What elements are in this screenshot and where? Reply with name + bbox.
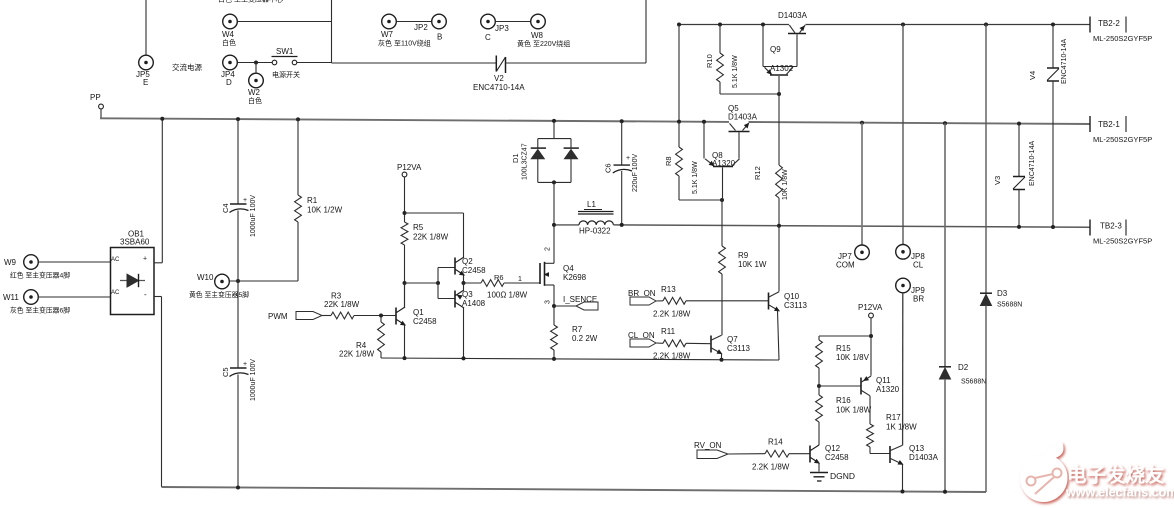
wire Q9 base to R12: [778, 76, 780, 165]
svg-text:PP: PP: [90, 93, 101, 102]
wire bridge plus up to rail: [154, 262, 162, 264]
rectifier D1 100L3CZ47: [553, 121, 555, 139]
svg-text:电子发烧友: 电子发烧友: [1067, 464, 1165, 487]
node JP8 top: [901, 23, 905, 27]
wire R5 to Q1 collector: [404, 245, 406, 308]
svg-text:10K 1/8V: 10K 1/8V: [836, 353, 870, 362]
transistor Q1 C2458: [395, 308, 397, 325]
svg-text:D: D: [226, 78, 232, 87]
wire TB2-3 rail: [614, 225, 1091, 227]
svg-text:C2458: C2458: [825, 453, 849, 462]
svg-text:3: 3: [545, 300, 552, 304]
wire JP7: [861, 123, 863, 245]
node Q9 emitter drop: [761, 23, 765, 27]
svg-text:AC: AC: [111, 290, 120, 296]
input tag CL_ON: [630, 339, 656, 347]
terminal TB2-2 ML-250S2GYF5P: [1089, 17, 1091, 33]
svg-text:5.1K 1/8W: 5.1K 1/8W: [692, 161, 699, 194]
input tag PWM: [296, 312, 322, 320]
resistor R10 5.1K 1/8W: [719, 25, 721, 54]
svg-text:1000uF 100V: 1000uF 100V: [250, 195, 257, 237]
wire Q2 emitter down: [463, 275, 465, 283]
node JP7 on rail: [860, 121, 864, 125]
node R5 top tap: [403, 211, 407, 215]
svg-text:+: +: [143, 256, 147, 263]
wire D1 to L1 node: [553, 182, 555, 225]
svg-text:ENC4710-14A: ENC4710-14A: [1061, 39, 1068, 84]
wire Q3 emitter up: [463, 283, 465, 290]
node L1 left: [552, 223, 556, 227]
svg-text:C6: C6: [604, 163, 613, 173]
svg-text:A1302: A1302: [770, 64, 794, 73]
svg-text:220uF 100V: 220uF 100V: [632, 154, 639, 192]
svg-text:100Ω 1/8W: 100Ω 1/8W: [487, 291, 528, 300]
resistor R14 2.2K 1/8W: [765, 450, 789, 457]
svg-text:2.2K 1/8W: 2.2K 1/8W: [653, 310, 691, 319]
svg-text:C: C: [485, 33, 491, 42]
svg-text:V3: V3: [993, 176, 1002, 185]
wire bottom rail: [162, 487, 987, 492]
svg-text:TB2-3: TB2-3: [1100, 222, 1122, 231]
svg-text:D1403A: D1403A: [778, 11, 808, 20]
resistor R9 10K 1W: [721, 200, 723, 246]
wire R11 to Q7 base: [686, 342, 711, 344]
svg-text:灰色 至110V绕组: 灰色 至110V绕组: [378, 39, 431, 48]
wire Q12 collector up: [818, 444, 820, 446]
wire R13 to Q10 base: [686, 300, 769, 302]
node R8 top: [677, 120, 681, 124]
svg-text:W11: W11: [3, 293, 19, 302]
node D1 bottom: [552, 180, 556, 184]
svg-text:1000uF 100V: 1000uF 100V: [250, 359, 257, 401]
node D1 top: [552, 119, 556, 123]
wire Q13 emitter to bottom rail: [902, 464, 904, 491]
resistor R4 22K 1/8W: [380, 316, 382, 323]
node R1 top: [296, 117, 300, 121]
svg-text:TB2-1: TB2-1: [1098, 120, 1120, 129]
wire Q10 emitter down to PGND corner: [778, 311, 780, 360]
svg-text:JP3: JP3: [495, 24, 509, 33]
connector JP9 BR: [896, 278, 911, 293]
svg-text:W10: W10: [197, 273, 214, 282]
wire PWM to R3: [322, 315, 331, 317]
svg-text:RV_ON: RV_ON: [694, 441, 722, 450]
svg-text:电源开关: 电源开关: [272, 70, 300, 79]
connector JP4: [223, 55, 238, 70]
capacitor C6 220uF 100V: [621, 121, 623, 164]
wire bridge minus down: [154, 296, 162, 298]
svg-text:www.elecfans.com: www.elecfans.com: [1065, 486, 1174, 500]
svg-text:2.2K 1/8W: 2.2K 1/8W: [752, 463, 790, 472]
svg-text:100L3CZ47: 100L3CZ47: [522, 143, 529, 180]
fuse V3 ENC4710-14A: [1017, 122, 1021, 126]
wire rail to mid rail: [678, 25, 680, 122]
svg-text:A1320: A1320: [876, 385, 900, 394]
resistor R3 22K 1/8W: [331, 312, 354, 319]
svg-text:K2698: K2698: [563, 273, 587, 282]
node Q3 collector on PGND: [462, 356, 466, 360]
wire W9 to bridge: [38, 261, 110, 263]
svg-text:+: +: [243, 197, 247, 204]
svg-text:R8: R8: [664, 156, 673, 166]
fuse V4 ENC4710-14A: [1051, 23, 1055, 27]
resistor R5 22K 1/8W: [401, 222, 408, 245]
svg-text:C3113: C3113: [784, 301, 808, 310]
svg-text:AC: AC: [111, 257, 120, 263]
svg-text:C5: C5: [221, 367, 230, 377]
svg-text:D1: D1: [511, 153, 520, 163]
mosfet Q4 K2698: [539, 263, 541, 284]
svg-text:+: +: [626, 155, 630, 162]
resistor R15 10K 1/8V: [816, 340, 823, 368]
resistor R13 2.2K 1/8W: [663, 297, 686, 304]
wire RV tag to R14: [728, 453, 765, 455]
wire JP5 stub up: [145, 0, 147, 55]
wire Q1 emitter down: [404, 325, 406, 358]
svg-text:C3113: C3113: [727, 344, 751, 353]
capacitor C4 1000uF 100V: [237, 119, 239, 203]
svg-text:R14: R14: [768, 438, 783, 447]
node C6 top: [620, 119, 624, 123]
wire W11 to bridge: [38, 296, 110, 298]
svg-text:PWM: PWM: [268, 312, 288, 321]
node W2 junction: [254, 61, 258, 65]
svg-text:黄色 至主变压器5脚: 黄色 至主变压器5脚: [189, 290, 249, 299]
svg-text:A1408: A1408: [462, 299, 486, 308]
svg-text:COM: COM: [836, 261, 855, 270]
svg-text:D3: D3: [997, 289, 1008, 298]
svg-text:交流电源: 交流电源: [172, 62, 202, 72]
wire Q8 base down: [722, 167, 724, 200]
node R12 on TB2-3 rail: [777, 224, 781, 228]
node Q8 base/R9: [720, 198, 724, 202]
wire PGND line: [381, 358, 779, 360]
wire Q1 collector up: [404, 283, 406, 308]
wire JP3: [495, 21, 530, 23]
transistor Q3 A1408: [454, 291, 456, 308]
output tag I_SENCE: [576, 302, 598, 310]
switch SW1: [272, 60, 277, 65]
resistor R8 5.1K 1/8W: [678, 122, 680, 147]
svg-text:W9: W9: [4, 258, 17, 267]
wire box bottom right: [506, 62, 647, 64]
resistor R11 2.2K 1/8W: [663, 340, 686, 347]
node D2 top: [943, 121, 947, 125]
transistor Q13 D1403A: [889, 446, 891, 463]
wire R3 to Q1 base: [354, 315, 396, 317]
node rail start: [677, 23, 681, 27]
wire JP2: [396, 21, 431, 23]
wire L1 left: [554, 224, 579, 226]
node Q1 emitter on PGND: [403, 356, 407, 360]
connector W8: [531, 14, 546, 29]
node D2 bottom: [943, 490, 947, 494]
capacitor C5 1000uF 100V: [237, 281, 239, 368]
wire Q8 emitter drop: [703, 122, 705, 159]
svg-text:R17: R17: [886, 413, 901, 422]
svg-text:22K 1/8W: 22K 1/8W: [413, 233, 449, 242]
transistor Q11 A1320: [860, 378, 862, 395]
svg-text:HP-0322: HP-0322: [579, 227, 611, 236]
wire top rail left: [679, 24, 789, 26]
wire base to Q11: [819, 385, 861, 387]
svg-text:ML-250S2GYF5P: ML-250S2GYF5P: [1093, 135, 1152, 144]
node R4 top: [379, 314, 383, 318]
resistor R17 1K 1/8W: [867, 424, 874, 447]
node C4/C5/W10 junction: [236, 279, 240, 283]
svg-text:ENC4710-14A: ENC4710-14A: [473, 83, 525, 92]
ground DGND: [810, 472, 828, 474]
svg-text:R15: R15: [836, 344, 851, 353]
svg-text:0.2 2W: 0.2 2W: [572, 334, 598, 343]
svg-text:R11: R11: [661, 327, 676, 336]
svg-text:Q1: Q1: [413, 308, 424, 317]
svg-text:S5688N: S5688N: [997, 302, 1022, 309]
svg-text:白色: 白色: [248, 96, 262, 105]
svg-text:白色: 白色: [222, 38, 236, 47]
svg-text:10K 1/8W: 10K 1/8W: [782, 169, 789, 200]
input tag RV_ON: [697, 450, 728, 459]
transistor Q12 C2458: [809, 446, 811, 463]
wire P12VA down: [404, 177, 406, 222]
resistor R12 10K 1/8W: [776, 165, 783, 198]
wire Q7 emitter: [721, 354, 723, 360]
connector W4: [223, 14, 238, 29]
svg-text:L1: L1: [587, 200, 596, 209]
transistor Q10 C3113: [768, 293, 770, 310]
wire box right edge: [645, 0, 647, 63]
svg-text:P12VA: P12VA: [858, 303, 883, 312]
transistor D1403A high-side (TB2-2): [788, 33, 806, 35]
wire SW1 to box: [297, 62, 332, 64]
wire JP8 from top rail: [902, 25, 904, 245]
node bridge plus on rail: [160, 117, 164, 121]
svg-text:Q12: Q12: [825, 444, 841, 453]
svg-text:-: -: [144, 290, 147, 299]
wire to Q2 collector: [405, 212, 464, 214]
svg-text:22K 1/8W: 22K 1/8W: [324, 300, 360, 309]
node R15/R16/Q11 base: [817, 384, 821, 388]
svg-text:R5: R5: [413, 223, 424, 232]
wire W10 node to R1: [229, 280, 298, 282]
svg-text:10K 1/2W: 10K 1/2W: [307, 206, 343, 215]
svg-text:R1: R1: [307, 196, 318, 205]
svg-text:SW1: SW1: [276, 47, 294, 56]
input tag BR_ON: [630, 297, 656, 305]
wire box left edge: [331, 0, 333, 63]
transistor Q7 C3113: [710, 336, 712, 353]
svg-text:红色 至主变压器4脚: 红色 至主变压器4脚: [10, 271, 70, 280]
connector W9: [24, 255, 39, 270]
wire main positive rail: [100, 118, 729, 122]
svg-text:D2: D2: [958, 363, 969, 372]
connector W11: [24, 290, 39, 305]
node R10 top: [718, 23, 722, 27]
node R6 tap: [462, 281, 466, 285]
wire box bottom left: [332, 62, 497, 64]
node C4 top: [236, 117, 240, 121]
resistor R1 10K 1/2W: [297, 119, 299, 195]
connector C: [481, 14, 496, 29]
wire Q11 collector to R17: [869, 396, 871, 424]
svg-text:Q9: Q9: [770, 45, 781, 54]
svg-text:3SBA60: 3SBA60: [120, 238, 150, 247]
wire Q9 emitter drop: [762, 25, 764, 67]
resistor R16 10K 1/8W: [818, 386, 820, 395]
watermark elecfans logo: [1020, 442, 1067, 502]
svg-text:5.1K 1/8W: 5.1K 1/8W: [732, 55, 739, 88]
wire Q3 collector down: [463, 308, 465, 359]
node R15 tap: [869, 334, 873, 338]
transistor Q2 C2458: [454, 258, 456, 275]
node Q7 emitter on PGND: [720, 358, 724, 362]
wire R10 to Q9 base: [720, 93, 779, 95]
svg-text:Q2: Q2: [462, 257, 473, 266]
node C5 bottom: [236, 486, 240, 490]
node D3 top: [984, 23, 988, 27]
wire JP4 to SW1: [237, 62, 272, 64]
terminal TB2-1 ML-250S2GYF5P: [1089, 116, 1091, 132]
svg-text:P12VA: P12VA: [397, 163, 422, 172]
svg-text:R6: R6: [494, 273, 504, 282]
svg-text:22K 1/8W: 22K 1/8W: [339, 350, 375, 359]
node R7 on PGND: [552, 357, 556, 361]
svg-text:灰色 至主变压器6脚: 灰色 至主变压器6脚: [10, 306, 70, 315]
terminal TB2-3 ML-250S2GYF5P: [1089, 220, 1091, 236]
connector W10: [215, 274, 230, 289]
diode D3 S5688N: [985, 25, 987, 294]
svg-text:R13: R13: [661, 285, 676, 294]
svg-text:ENC4710-14A: ENC4710-14A: [1029, 141, 1036, 186]
wire Q10 collector chain: [778, 226, 780, 292]
svg-text:B: B: [437, 33, 442, 42]
svg-text:DGND: DGND: [830, 471, 855, 481]
wire R14 to Q12 base: [789, 453, 810, 455]
connector B: [432, 14, 447, 29]
svg-text:1K 1/8W: 1K 1/8W: [886, 423, 917, 432]
resistor R7 0.2 2W: [553, 306, 555, 325]
svg-text:Q13: Q13: [909, 444, 925, 453]
wire BR tag to R13: [656, 300, 663, 302]
svg-text:ML-250S2GYF5P: ML-250S2GYF5P: [1093, 34, 1152, 43]
resistor R6 100ohm 1/8W: [464, 282, 482, 284]
svg-text:C4: C4: [221, 203, 230, 213]
wire to base pair: [405, 282, 439, 284]
svg-text:白色 至主变压器中心: 白色 至主变压器中心: [218, 0, 283, 4]
svg-text:R9: R9: [738, 251, 749, 260]
wire JP9 to Q13 collector: [902, 293, 904, 445]
wire CL tag to R11: [656, 342, 663, 344]
svg-text:Q7: Q7: [727, 335, 738, 344]
svg-text:W8: W8: [531, 31, 544, 40]
svg-text:C2458: C2458: [462, 266, 486, 275]
connector W2: [249, 73, 264, 88]
wire Q12 emitter to DGND: [818, 463, 820, 471]
node base pair: [436, 281, 440, 285]
watermark text 电子发烧友: [1067, 464, 1165, 487]
svg-text:Q10: Q10: [784, 292, 800, 301]
node C6 bottom: [620, 223, 624, 227]
watermark text www.elecfans.com: [1065, 486, 1174, 500]
wire P12VA down to Q11 emitter: [870, 318, 872, 376]
svg-text:D1403A: D1403A: [909, 453, 939, 462]
diode D2 S5688N: [944, 123, 946, 366]
wire W4 to box edge: [237, 21, 331, 23]
wire I_SENCE: [554, 305, 576, 307]
svg-text:R10: R10: [705, 54, 714, 68]
wire R8 bottom to Q8 base: [679, 199, 722, 201]
svg-text:Q11: Q11: [876, 376, 891, 385]
wire R17 to Q13 base: [870, 453, 890, 455]
svg-text:黄色 至220V绕组: 黄色 至220V绕组: [517, 39, 570, 48]
svg-text:R12: R12: [753, 166, 762, 180]
wire base pair box: [437, 268, 439, 299]
wire to R15: [819, 335, 871, 337]
connector JP5: [139, 55, 154, 70]
svg-text:BR: BR: [913, 295, 924, 304]
node Q13 emitter on bottom rail: [901, 490, 905, 494]
fuse V2 ENC4710-14A: [495, 56, 497, 72]
node source/I_SENCE: [552, 304, 556, 308]
svg-text:C2458: C2458: [413, 317, 437, 326]
connector JP7 COM: [855, 245, 870, 260]
svg-text:TB2-2: TB2-2: [1098, 19, 1120, 28]
svg-text:10K 1/8W: 10K 1/8W: [836, 406, 872, 415]
svg-text:W4: W4: [222, 30, 235, 39]
svg-text:S5688N: S5688N: [961, 379, 986, 386]
svg-text:Q4: Q4: [563, 264, 574, 273]
node driver base tap: [403, 281, 407, 285]
svg-text:E: E: [143, 78, 148, 87]
svg-text:2: 2: [545, 247, 552, 251]
svg-text:1: 1: [518, 276, 522, 283]
wire top rail right: [806, 24, 1091, 26]
svg-text:V4: V4: [1028, 71, 1037, 80]
svg-text:2.2K 1/8W: 2.2K 1/8W: [653, 352, 691, 361]
svg-text:D1403A: D1403A: [728, 113, 758, 122]
connector JP8 CL: [896, 245, 911, 260]
svg-text:10K 1W: 10K 1W: [738, 260, 767, 269]
svg-text:ML-250S2GYF5P: ML-250S2GYF5P: [1093, 237, 1152, 246]
node Q8 drop: [702, 120, 706, 124]
svg-text:W7: W7: [381, 30, 394, 39]
svg-text:W2: W2: [248, 88, 261, 97]
node Q9 base junction: [777, 92, 781, 96]
connector W7: [382, 14, 397, 29]
wire Q9 top link: [763, 66, 797, 68]
svg-text:CL: CL: [913, 261, 924, 270]
svg-text:R16: R16: [836, 396, 851, 405]
svg-text:JP2: JP2: [414, 23, 428, 32]
svg-text:+: +: [243, 361, 247, 368]
svg-text:R7: R7: [572, 325, 583, 334]
svg-text:V2: V2: [494, 74, 504, 83]
svg-text:Q3: Q3: [462, 290, 473, 299]
